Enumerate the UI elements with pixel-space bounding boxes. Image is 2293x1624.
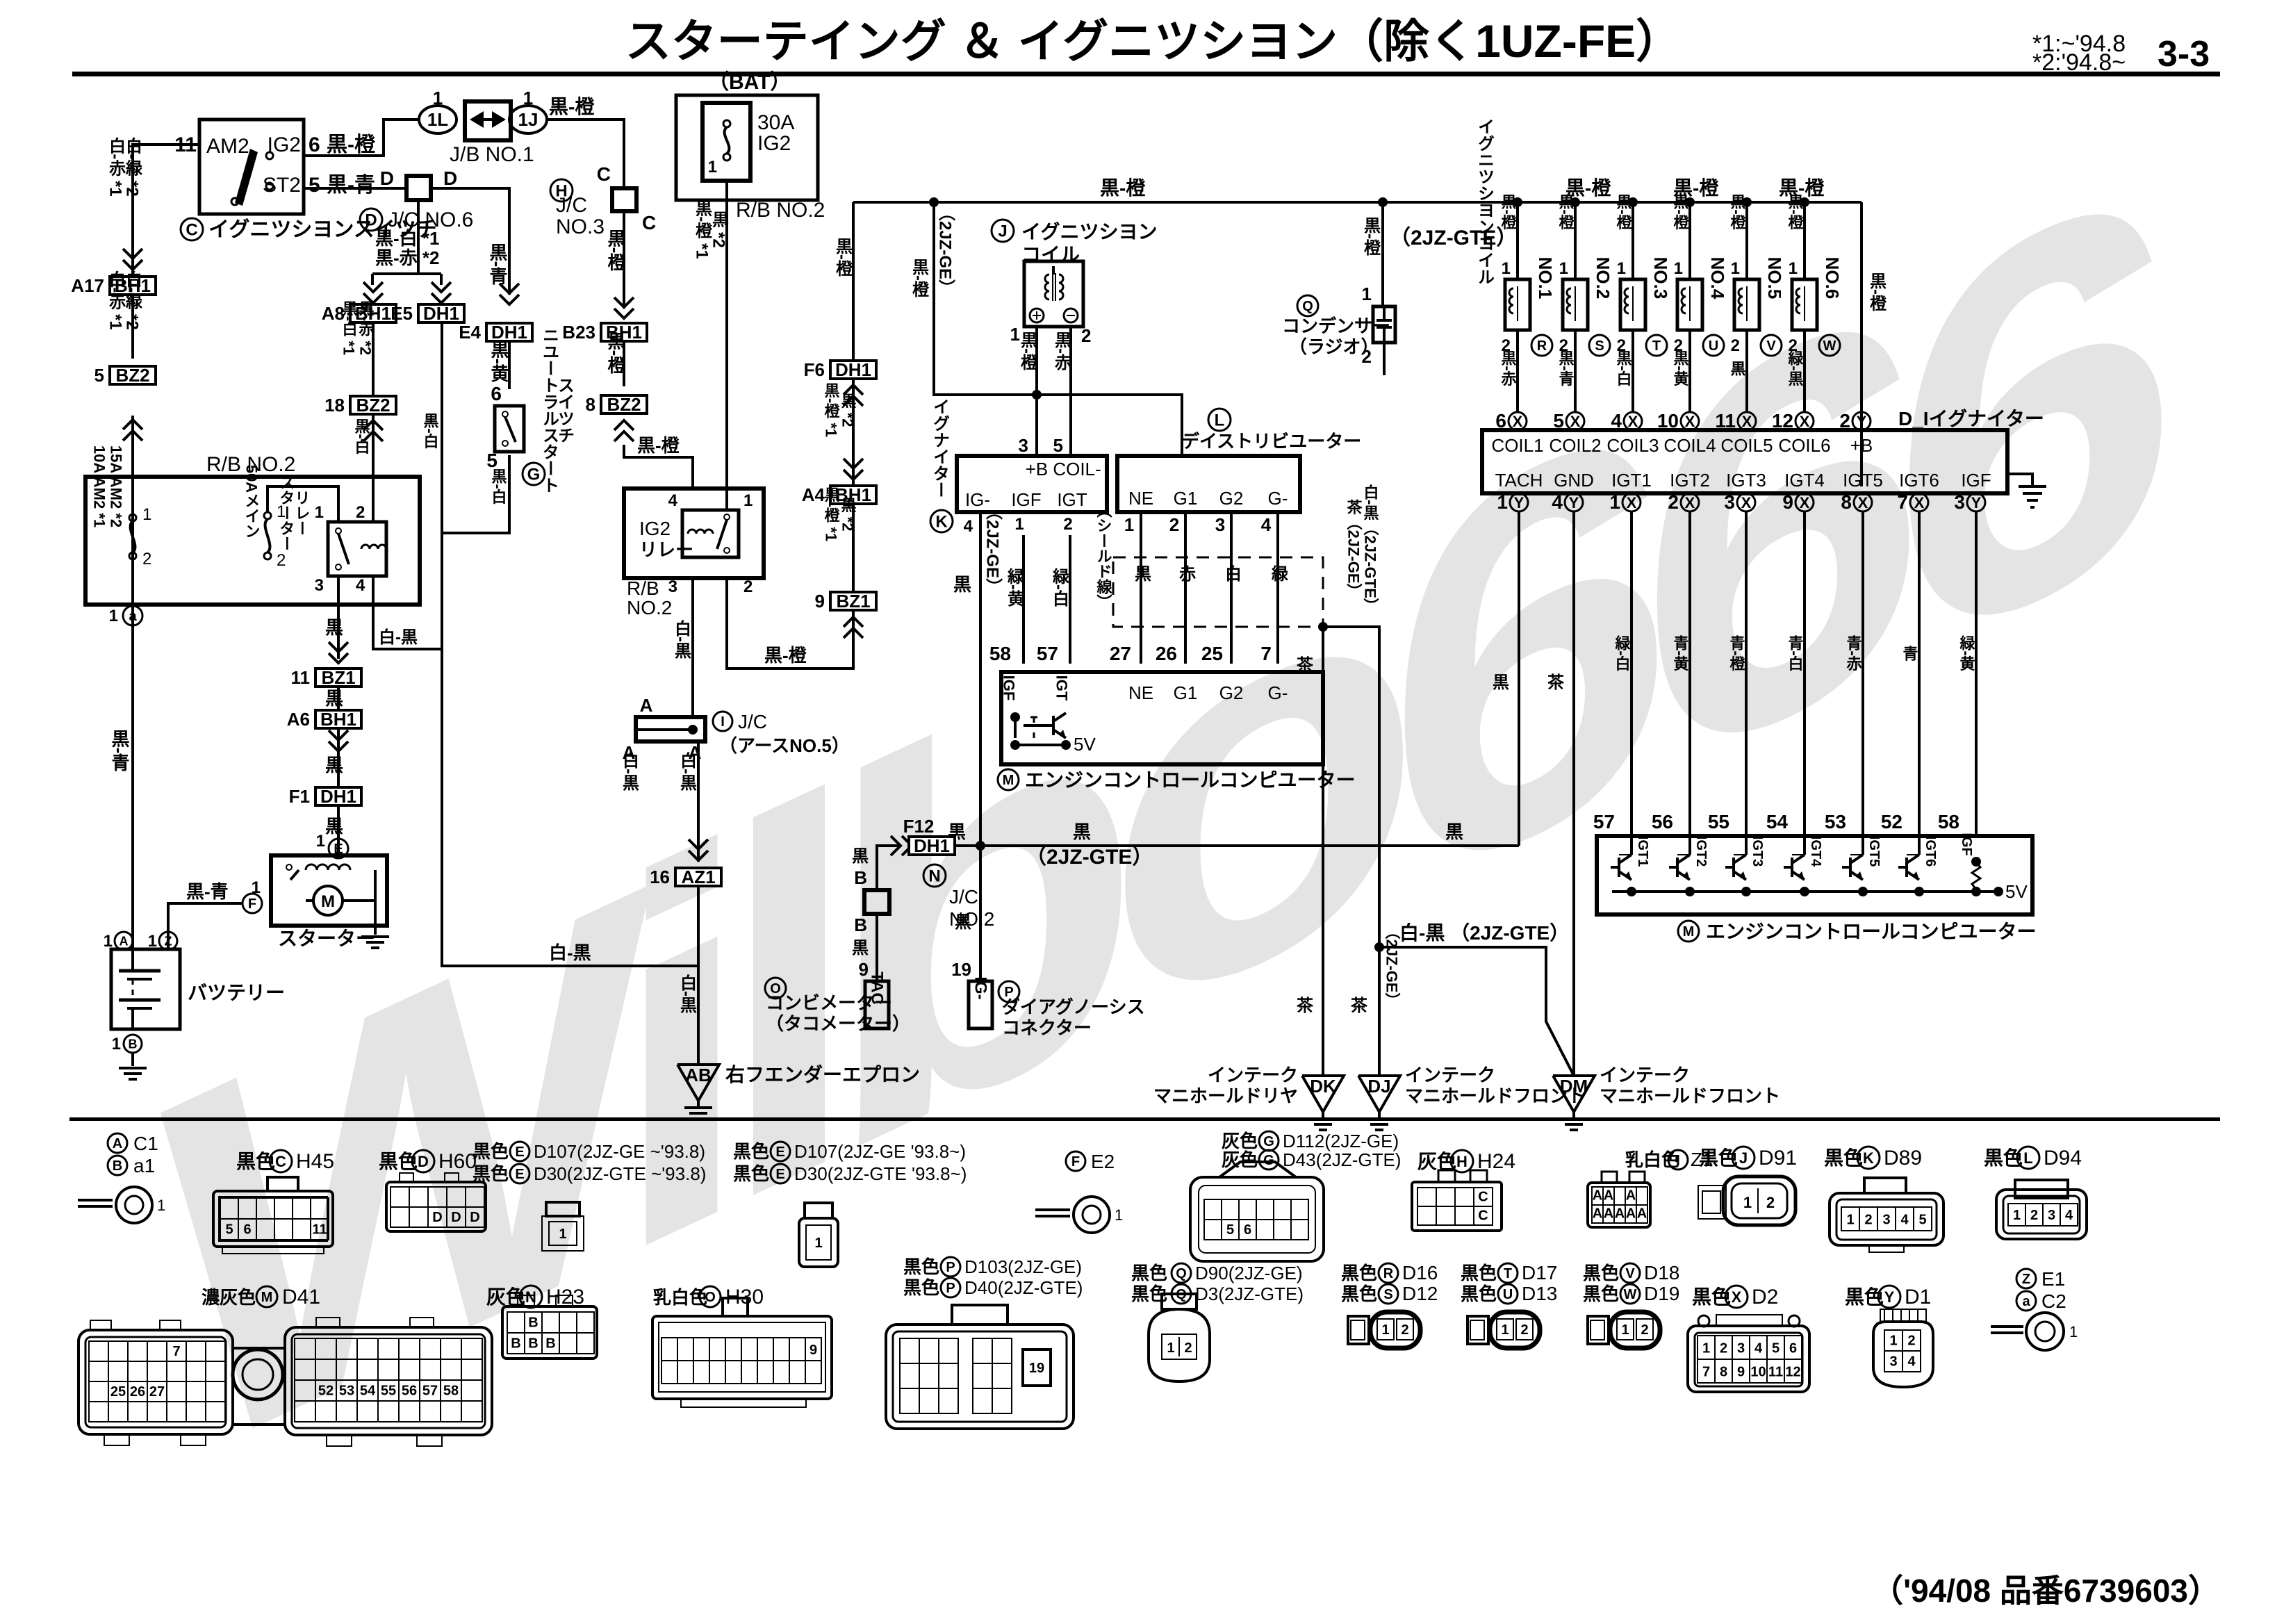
shield triangle DJ	[1358, 1076, 1400, 1112]
svg-text:（2JZ-GTE）: （2JZ-GTE）	[1026, 845, 1153, 869]
wire bar to A8 E5	[372, 272, 441, 275]
svg-text:IGT: IGT	[1057, 489, 1087, 510]
svg-text:白-緑 *2: 白-緑 *2	[123, 136, 142, 196]
svg-text:COIL6: COIL6	[1778, 435, 1830, 456]
junction IG- wire	[976, 841, 985, 851]
svg-text:X: X	[1858, 494, 1868, 511]
connector join 5 BZ2	[110, 366, 156, 384]
svg-text:X: X	[1627, 494, 1637, 511]
svg-text:4: 4	[1907, 1354, 1916, 1370]
svg-text:茶: 茶	[1547, 673, 1565, 692]
wire IGF down	[1975, 511, 1978, 836]
svg-text:2: 2	[356, 503, 365, 522]
white-black GTE wire	[1374, 942, 1384, 952]
svg-text:TACH: TACH	[1495, 470, 1543, 491]
wire IGT4 down	[1803, 511, 1806, 836]
svg-text:A17: A17	[71, 275, 104, 296]
coil NO.3 wire down	[1632, 330, 1634, 412]
battery plates	[131, 949, 134, 969]
svg-text:IGT4: IGT4	[1784, 470, 1825, 491]
svg-text:U: U	[1503, 1287, 1513, 1302]
svg-text:53: 53	[1825, 811, 1846, 832]
wire to A6	[337, 687, 340, 710]
connector X D2	[1698, 1315, 1709, 1327]
coil NO.3 box	[1620, 279, 1645, 330]
connector M D41 right block	[316, 1318, 340, 1327]
svg-text:NO.2: NO.2	[1593, 257, 1613, 300]
svg-text:P: P	[946, 1281, 955, 1296]
circled Z	[159, 932, 177, 950]
svg-text:インテーク: インテーク	[1208, 1065, 1298, 1085]
connector join F12 DH1	[909, 837, 955, 855]
svg-text:J/C: J/C	[949, 886, 978, 908]
svg-text:A: A	[120, 934, 129, 948]
coil NO.4 box	[1677, 279, 1702, 330]
svg-text:（シールド線）: （シールド線）	[1095, 502, 1113, 609]
svg-text:L: L	[1215, 411, 1225, 430]
svg-text:1: 1	[2013, 1208, 2021, 1223]
svg-text:COIL-: COIL-	[1053, 459, 1101, 479]
wire battery to F	[168, 903, 243, 949]
rail junction to coil J	[929, 197, 939, 207]
wire A8 to 18 BZ2	[372, 322, 375, 396]
svg-text:IGF: IGF	[1959, 832, 1974, 855]
svg-text:D30(2JZ-GTE ~'93.8): D30(2JZ-GTE ~'93.8)	[534, 1163, 706, 1184]
svg-text:IGT3: IGT3	[1750, 836, 1765, 867]
connector D H60	[400, 1173, 413, 1182]
svg-text:黒: 黒	[1132, 565, 1151, 582]
connector Z E1 label	[2016, 1269, 2036, 1288]
svg-text:11: 11	[312, 1222, 327, 1238]
svg-text:DK: DK	[1310, 1076, 1336, 1097]
svg-text:D17: D17	[1522, 1262, 1557, 1283]
svg-text:BZ2: BZ2	[356, 395, 390, 416]
wire AZ1 to AB	[697, 886, 700, 1065]
svg-text:黒: 黒	[325, 688, 343, 709]
svg-text:56: 56	[1652, 811, 1673, 832]
svg-text:BZ2: BZ2	[607, 394, 641, 415]
igniter ground	[2007, 474, 2032, 486]
arrows to A17	[123, 249, 142, 259]
svg-text:5: 5	[94, 365, 104, 386]
igniter pin 5X	[1566, 412, 1584, 430]
svg-text:G: G	[1263, 1134, 1274, 1149]
arrow to E4	[500, 284, 519, 293]
svg-text:3: 3	[1019, 435, 1028, 456]
svg-text:55: 55	[1708, 811, 1729, 832]
wire to TAC	[877, 846, 899, 890]
svg-text:Y: Y	[1884, 1288, 1895, 1306]
svg-text:COIL1: COIL1	[1491, 435, 1543, 456]
svg-text:黒-橙: 黒-橙	[764, 645, 807, 666]
svg-text:J: J	[1739, 1149, 1748, 1167]
ECU label M	[998, 769, 1019, 790]
svg-text:緑-黄: 緑-黄	[1958, 635, 1976, 672]
svg-text:11: 11	[291, 667, 311, 688]
svg-text:X: X	[1914, 494, 1925, 511]
svg-text:イグニツシヨン: イグニツシヨン	[1021, 221, 1157, 243]
svg-text:青-橙: 青-橙	[1728, 635, 1745, 671]
svg-text:11: 11	[1768, 1364, 1783, 1379]
wire to AZ1 white-black	[442, 649, 698, 966]
svg-text:黒-橙: 黒-橙	[1499, 194, 1517, 230]
svg-text:AB: AB	[685, 1065, 712, 1085]
IG2 relay outer box	[624, 489, 764, 578]
svg-text:2: 2	[1081, 325, 1091, 346]
svg-text:IGT5: IGT5	[1866, 836, 1882, 867]
wire IG- down	[979, 512, 982, 846]
svg-text:DH1: DH1	[914, 835, 950, 856]
svg-text:D: D	[418, 1153, 429, 1170]
igniter bottom pin 3X	[1737, 493, 1755, 511]
svg-text:50Aメイン: 50Aメイン	[243, 465, 261, 539]
svg-text:黒-橙: 黒-橙	[1672, 194, 1689, 230]
svg-text:A: A	[1615, 1206, 1625, 1222]
svg-text:黒-青: 黒-青	[327, 174, 375, 197]
svg-text:12: 12	[1785, 1364, 1800, 1379]
connector P	[952, 1305, 1008, 1324]
svg-text:D18: D18	[1644, 1262, 1679, 1283]
starter relay inner box	[328, 522, 386, 576]
svg-text:2: 2	[1184, 1340, 1192, 1356]
coil NO.2 box	[1563, 279, 1588, 330]
svg-text:黒: 黒	[325, 816, 343, 837]
svg-text:COIL2: COIL2	[1549, 435, 1601, 456]
connector M D41 left block	[90, 1320, 111, 1330]
svg-text:H45: H45	[296, 1150, 334, 1173]
svg-text:黒 *2: 黒 *2	[839, 393, 857, 427]
svg-text:インテーク: インテーク	[1600, 1065, 1690, 1085]
svg-text:AZ1: AZ1	[681, 867, 715, 887]
svg-text:D112(2JZ-GE): D112(2JZ-GE)	[1283, 1131, 1399, 1151]
wire GND down brown	[1572, 511, 1575, 1076]
svg-text:2: 2	[1720, 1340, 1727, 1356]
svg-text:Z: Z	[165, 934, 172, 948]
distributor box	[1117, 456, 1300, 512]
battery ground	[131, 1053, 134, 1066]
svg-text:（アースNO.5）: （アースNO.5）	[719, 735, 850, 756]
connector O H30	[723, 1298, 748, 1316]
svg-text:青-黄: 青-黄	[1672, 635, 1689, 672]
svg-text:G1: G1	[1174, 488, 1198, 509]
svg-text:4: 4	[964, 517, 973, 536]
svg-text:Y: Y	[1971, 494, 1982, 511]
svg-text:AM2: AM2	[206, 135, 249, 158]
svg-text:A: A	[113, 1136, 122, 1151]
svg-text:1: 1	[708, 158, 717, 177]
igniter bottom pin 1Y	[1510, 493, 1528, 511]
svg-text:黒色: 黒色	[1461, 1263, 1497, 1283]
svg-text:X: X	[1685, 494, 1695, 511]
svg-text:Y: Y	[1514, 494, 1524, 511]
svg-text:U: U	[1709, 338, 1718, 354]
svg-text:2: 2	[743, 577, 753, 596]
svg-text:L: L	[2023, 1149, 2032, 1167]
svg-text:3: 3	[1882, 1212, 1890, 1227]
shield triangle AB	[677, 1065, 719, 1101]
svg-text:NO.3: NO.3	[556, 215, 605, 238]
svg-text:マニホールドリヤ: マニホールドリヤ	[1153, 1085, 1298, 1106]
svg-text:4: 4	[1754, 1340, 1763, 1356]
svg-text:黒: 黒	[852, 847, 869, 866]
svg-text:A: A	[1626, 1188, 1636, 1204]
svg-text:+B: +B	[1850, 435, 1873, 456]
svg-text:D103(2JZ-GE): D103(2JZ-GE)	[964, 1256, 1082, 1277]
wire 50A to relay	[268, 486, 338, 522]
svg-text:IGT6: IGT6	[1899, 470, 1939, 491]
wire E4 to switch	[508, 341, 511, 389]
svg-text:バツテリー: バツテリー	[188, 982, 285, 1003]
diagnosis connector label	[998, 981, 1019, 1002]
svg-text:BZ1: BZ1	[836, 591, 870, 612]
wire D box down	[417, 200, 420, 274]
svg-text:（2JZ-GTE）: （2JZ-GTE）	[1390, 226, 1517, 249]
svg-text:青-白: 青-白	[1786, 635, 1804, 672]
svg-text:X: X	[1513, 413, 1523, 430]
svg-text:D43(2JZ-GTE): D43(2JZ-GTE)	[1283, 1149, 1401, 1170]
svg-text:黒色: 黒色	[903, 1277, 939, 1298]
connector join 11 BZ1	[315, 669, 361, 687]
svg-text:3: 3	[315, 576, 324, 595]
svg-text:1: 1	[1497, 491, 1508, 513]
arrows below 9 BZ1	[844, 617, 863, 627]
transistor IGT5	[1842, 866, 1850, 869]
svg-text:マニホールドフロント: マニホールドフロント	[1600, 1085, 1780, 1106]
svg-text:8: 8	[586, 394, 595, 415]
coil plus terminal	[1030, 309, 1044, 322]
svg-text:1: 1	[559, 1227, 566, 1242]
svg-text:白-黒: 白-黒	[549, 942, 591, 963]
svg-text:黒-赤: 黒-赤	[1499, 350, 1517, 387]
svg-text:IGT6: IGT6	[1923, 836, 1938, 867]
svg-text:D_Iイグナイター: D_Iイグナイター	[1898, 408, 2044, 429]
svg-text:G: G	[527, 466, 541, 484]
svg-text:黒-橙: 黒-橙	[1786, 194, 1804, 230]
arrows below A6	[329, 730, 348, 740]
svg-text:DH1: DH1	[835, 359, 871, 380]
wire IGT6 down	[1918, 511, 1921, 836]
svg-text:7: 7	[1260, 643, 1272, 664]
wire IGT3 down	[1745, 511, 1748, 836]
coil NO.6 wire down	[1803, 330, 1806, 412]
svg-text:D12: D12	[1402, 1283, 1438, 1304]
wire IGT1 down	[1630, 511, 1633, 836]
svg-text:DM: DM	[1560, 1076, 1588, 1097]
igniter bottom pin 7X	[1910, 493, 1928, 511]
svg-text:DH1: DH1	[423, 303, 459, 324]
svg-text:黒: 黒	[325, 617, 343, 638]
svg-text:1: 1	[1621, 1322, 1629, 1338]
svg-text:濃灰色: 濃灰色	[202, 1287, 256, 1308]
igniter pin 2Y	[1852, 412, 1871, 430]
svg-text:T: T	[1504, 1266, 1512, 1281]
svg-text:1: 1	[1501, 1322, 1509, 1338]
svg-text:白: 白	[1222, 564, 1241, 582]
top rule	[72, 72, 2220, 76]
svg-text:E2: E2	[1091, 1151, 1115, 1172]
TAC box	[865, 981, 889, 1028]
connector join 9 BZ1	[830, 592, 876, 610]
svg-text:2: 2	[1907, 1334, 1915, 1349]
wire C to B23	[623, 211, 625, 309]
svg-text:S: S	[1383, 1287, 1392, 1302]
svg-text:黒-白 *1: 黒-白 *1	[340, 301, 358, 355]
connector I Z1	[1602, 1172, 1617, 1183]
svg-text:DH1: DH1	[320, 786, 356, 807]
wire 18 BZ2 to relay coil	[372, 414, 375, 522]
wire IGT5 down	[1861, 511, 1864, 836]
svg-text:C1: C1	[133, 1133, 158, 1154]
circled a below R/B	[123, 606, 142, 625]
svg-text:F6: F6	[804, 359, 825, 380]
connector G	[1219, 1162, 1296, 1177]
svg-text:1: 1	[1502, 259, 1511, 278]
svg-text:9: 9	[809, 1343, 817, 1358]
svg-text:右フエンダーエプロン: 右フエンダーエプロン	[725, 1063, 920, 1085]
svg-text:2: 2	[1864, 1212, 1872, 1227]
svg-text:E5: E5	[391, 303, 413, 324]
svg-text:7: 7	[1702, 1364, 1710, 1379]
svg-text:B: B	[854, 914, 867, 935]
arrows to 11 BZ1	[329, 642, 348, 652]
svg-text:C2: C2	[2041, 1290, 2066, 1312]
connector R D16	[1348, 1316, 1369, 1344]
starter motor M	[313, 886, 343, 915]
wire ST2 to E4	[431, 188, 509, 295]
svg-text:黒-白: 黒-白	[490, 468, 507, 505]
svg-text:NO.2: NO.2	[627, 597, 672, 618]
connector join 8 BZ2	[601, 395, 647, 413]
svg-text:V: V	[1625, 1266, 1635, 1281]
svg-text:2: 2	[1401, 1322, 1408, 1338]
svg-text:COIL3: COIL3	[1606, 435, 1659, 456]
svg-text:1: 1	[1014, 515, 1024, 534]
connector N H23	[518, 1295, 534, 1306]
svg-text:H60: H60	[438, 1150, 477, 1173]
coil NO.4 wire down	[1688, 330, 1691, 412]
svg-text:茶（2JZ-GE）: 茶（2JZ-GE）	[1345, 499, 1363, 598]
svg-text:マニホールドフロント: マニホールドフロント	[1405, 1085, 1586, 1106]
svg-text:IGT4: IGT4	[1808, 836, 1823, 867]
svg-text:黒-青: 黒-青	[109, 730, 130, 773]
coil NO.2 wire	[1570, 197, 1580, 207]
starter box	[271, 855, 387, 926]
svg-text:1: 1	[1789, 259, 1798, 278]
svg-text:青-赤: 青-赤	[1845, 635, 1862, 672]
connector E early	[546, 1202, 580, 1216]
separator rule	[69, 1117, 2220, 1121]
svg-text:6: 6	[1244, 1222, 1251, 1238]
svg-text:黒色: 黒色	[1583, 1263, 1619, 1283]
svg-text:エンジンコントロールコンピユーター: エンジンコントロールコンピユーター	[1025, 769, 1355, 791]
igniter box K	[957, 456, 1107, 512]
svg-text:黒: 黒	[955, 913, 971, 932]
shield dashed box	[1113, 557, 1323, 627]
svg-text:E4: E4	[459, 322, 481, 343]
svg-text:黒色: 黒色	[733, 1163, 769, 1184]
svg-text:黒色: 黒色	[1131, 1263, 1167, 1283]
svg-text:白-黒: 白-黒	[379, 628, 418, 647]
wire BZ2 to battery	[131, 416, 134, 949]
svg-text:C: C	[1478, 1208, 1488, 1223]
svg-text:黒色: 黒色	[903, 1256, 939, 1277]
fuse 50A main	[264, 512, 271, 519]
connector Y D1	[1880, 1309, 1926, 1322]
svg-text:1L: 1L	[427, 109, 448, 130]
svg-text:1J: 1J	[518, 109, 539, 130]
wire IG2 to J/B	[304, 120, 420, 156]
svg-text:26: 26	[130, 1384, 145, 1400]
svg-text:2: 2	[1766, 1194, 1775, 1211]
svg-text:D: D	[365, 211, 377, 230]
fuse AM2	[129, 514, 136, 521]
svg-text:1: 1	[112, 1035, 121, 1053]
svg-text:58: 58	[443, 1384, 459, 1399]
svg-text:M: M	[261, 1290, 273, 1305]
svg-text:3: 3	[1737, 1340, 1745, 1356]
svg-text:Z: Z	[2022, 1272, 2030, 1287]
connector J D91	[1698, 1186, 1726, 1219]
coil NO.1 wire	[1513, 197, 1522, 207]
svg-text:E: E	[775, 1145, 784, 1160]
+B wire	[1860, 202, 1863, 486]
svg-text:2: 2	[1668, 491, 1679, 513]
coil NO.2 wire down	[1574, 330, 1577, 412]
svg-text:黒-青: 黒-青	[186, 881, 229, 902]
svg-text:黒-橙: 黒-橙	[1361, 217, 1381, 256]
svg-text:58: 58	[989, 643, 1011, 664]
svg-text:IGT5: IGT5	[1843, 470, 1883, 491]
svg-text:1: 1	[1889, 1334, 1897, 1349]
condenser junction	[1378, 197, 1388, 207]
svg-text:16: 16	[650, 867, 670, 887]
svg-text:コンビメーター: コンビメーター	[766, 992, 892, 1013]
ignition coil box	[1024, 261, 1083, 327]
svg-text:J/C: J/C	[738, 711, 767, 732]
svg-text:E: E	[775, 1167, 784, 1182]
svg-text:（BAT）: （BAT）	[708, 70, 791, 94]
wire IGT2 down	[1688, 511, 1691, 836]
svg-text:1: 1	[2069, 1323, 2078, 1340]
connector join E4 DH1	[486, 323, 532, 341]
transistor IGT2	[1669, 866, 1677, 869]
svg-text:NO.5: NO.5	[1764, 257, 1785, 300]
svg-text:1: 1	[1846, 1212, 1854, 1227]
svg-text:Q: Q	[1302, 299, 1313, 314]
svg-text:IGT2: IGT2	[1693, 836, 1709, 867]
svg-text:J/B NO.1: J/B NO.1	[450, 143, 534, 166]
igniter bottom pin 8X	[1854, 493, 1872, 511]
svg-text:1: 1	[814, 1236, 822, 1251]
igniter bottom pin 1X	[1622, 493, 1641, 511]
svg-text:緑-黒: 緑-黒	[1786, 350, 1805, 386]
svg-text:黒色: 黒色	[1341, 1263, 1377, 1283]
svg-text:A: A	[1604, 1206, 1613, 1222]
svg-text:黒-青: 黒-青	[487, 243, 508, 286]
igniter pin 10X	[1681, 412, 1699, 430]
circled F	[243, 894, 262, 913]
svg-text:D19: D19	[1644, 1283, 1679, 1304]
coil NO.5 wire down	[1745, 330, 1748, 412]
svg-text:黒: 黒	[1493, 673, 1509, 692]
connector join 18 BZ2	[350, 396, 396, 414]
ignition switch lever	[231, 198, 238, 205]
svg-text:5: 5	[309, 174, 320, 197]
connector V D18	[1588, 1316, 1609, 1344]
svg-text:19: 19	[1029, 1361, 1044, 1376]
svg-text:M: M	[321, 892, 335, 911]
svg-text:茶: 茶	[1297, 996, 1314, 1015]
